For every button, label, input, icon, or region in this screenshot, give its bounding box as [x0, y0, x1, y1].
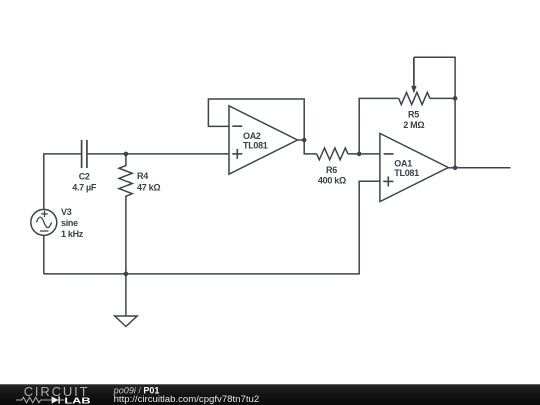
wire: V3 bottom lead down to ground rail: [43, 235, 45, 274]
capacitor C2: [82, 140, 87, 168]
svg-text:1 kHz: 1 kHz: [61, 229, 84, 239]
logo resistor zigzag and diode: [16, 396, 64, 403]
wire: C2 right plate to node A: [87, 153, 126, 155]
svg-text:2 MΩ: 2 MΩ: [403, 120, 424, 130]
resistor R4: [119, 154, 132, 274]
label R5 name: [408, 109, 419, 119]
label OA1 name: [394, 159, 412, 169]
label C2 value 4.7 uF: [72, 182, 97, 192]
wire: R6 to OA1 - input: [348, 153, 380, 155]
wire: V3 top lead up to main row and right to C2 left plate: [44, 154, 82, 210]
label R4 name: [137, 171, 148, 181]
ground: [115, 274, 137, 327]
node: R5 wiper junction dot: [453, 96, 458, 101]
svg-text:R6: R6: [326, 165, 337, 175]
label V3 value 1 kHz: [61, 229, 84, 239]
footer title po09i / P01: [113, 385, 160, 395]
svg-text:TL081: TL081: [394, 168, 419, 178]
svg-text:V3: V3: [61, 207, 72, 217]
potentiometer R5: [399, 57, 430, 104]
svg-text:R4: R4: [137, 171, 148, 181]
svg-text:C2: C2: [79, 172, 90, 182]
svg-text:OA2: OA2: [243, 131, 261, 141]
wire: OA2 feedback loop output to - input: [208, 99, 304, 140]
wire: OA1 output to the right: [455, 167, 510, 169]
label R6 value 400 kOhm: [318, 175, 346, 185]
wire: R5 wiper loop: [414, 57, 455, 98]
voltage source V3: [31, 209, 57, 235]
node B: junction dot R6 / OA1 / R5: [357, 152, 362, 157]
label V3 type sine: [61, 218, 78, 228]
node: OA1 output junction dot: [453, 166, 458, 171]
svg-text:OA1: OA1: [394, 159, 412, 169]
svg-text:http://circuitlab.com/cpgfv78t: http://circuitlab.com/cpgfv78tn7tu2: [114, 394, 260, 405]
svg-text:47 kΩ: 47 kΩ: [137, 182, 160, 192]
label OA2 part TL081: [243, 141, 268, 151]
node A: junction dot C2/R4: [124, 152, 129, 157]
node: OA2 output junction dot: [302, 138, 307, 143]
label OA1 part TL081: [394, 168, 419, 178]
svg-text:400 kΩ: 400 kΩ: [318, 175, 346, 185]
op-amp OA2: [229, 106, 304, 174]
label C2 name: [79, 172, 90, 182]
label OA2 name: [243, 131, 261, 141]
label R4 value 47 kOhm: [137, 182, 160, 192]
wire: node B up to R5 left lead: [359, 98, 399, 153]
wire: R5 junction down to OA1 output: [454, 98, 456, 167]
wire: OA2 output down to R6: [304, 140, 317, 154]
label V3 name: [61, 207, 72, 217]
wire: R5 right lead to junction: [430, 97, 455, 99]
resistor R6: [317, 148, 348, 160]
svg-text:LAB: LAB: [64, 396, 91, 405]
footer url: [114, 394, 260, 405]
logo CIRCUIT text: [24, 384, 90, 399]
op-amp OA1: [380, 133, 455, 201]
svg-text:R5: R5: [408, 109, 419, 119]
logo LAB text: [64, 396, 91, 405]
node: junction dot ground rail: [124, 272, 129, 277]
wire: node A to OA2 + input: [126, 153, 229, 155]
svg-text:TL081: TL081: [243, 141, 268, 151]
svg-text:4.7 µF: 4.7 µF: [72, 182, 97, 192]
wire: bottom ground rail: [44, 181, 380, 274]
label R6 name: [326, 165, 337, 175]
svg-text:sine: sine: [61, 218, 78, 228]
label R5 value 2 MOhm: [403, 120, 424, 130]
